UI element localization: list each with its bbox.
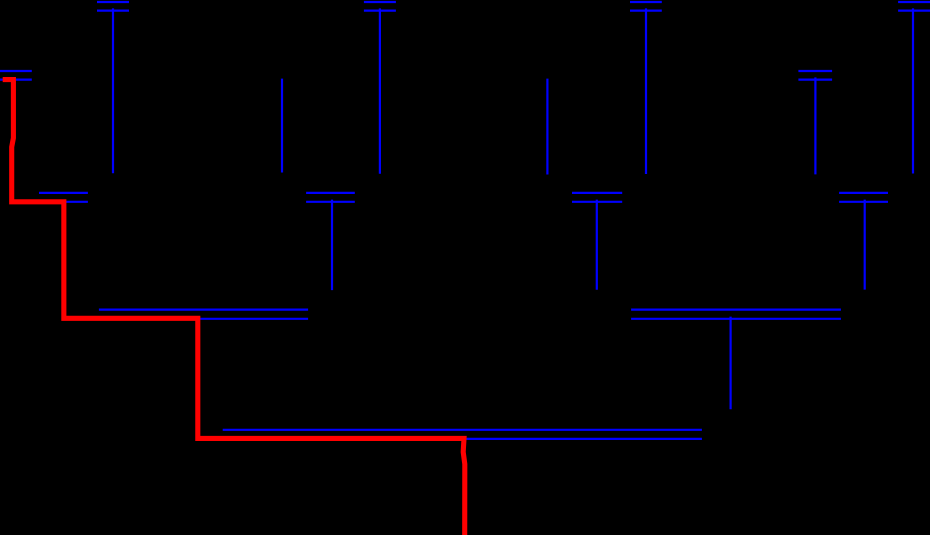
- node S stem: [596, 200, 598, 290]
- node S top bar: [572, 192, 622, 194]
- node S bottom bar: [572, 201, 622, 203]
- node T bottom bar: [839, 201, 888, 203]
- node G top bar: [798, 70, 832, 72]
- node R stem (hidden under red path): [197, 317, 199, 410]
- node U stem: [729, 317, 731, 410]
- node T top bar: [839, 192, 888, 194]
- node G bottom bar: [798, 78, 832, 80]
- node Q top bar: [306, 192, 355, 194]
- node Q bottom bar: [306, 201, 355, 203]
- node H bottom bar: [898, 10, 930, 12]
- node B stem (hidden under red path): [11, 77, 13, 182]
- node P top bar: [39, 192, 88, 194]
- node H stem: [912, 8, 914, 173]
- node F bottom bar: [630, 10, 662, 12]
- node R bottom bar: [99, 318, 308, 320]
- root top bar: [223, 429, 702, 431]
- node B top bar: [0, 70, 32, 72]
- root stem (hidden under red path): [463, 437, 465, 531]
- node P stem (hidden under red path): [63, 200, 65, 290]
- node A bottom bar: [97, 10, 129, 12]
- node P bottom bar: [39, 201, 88, 203]
- node U top bar: [631, 309, 841, 311]
- node D bottom bar: [364, 10, 396, 12]
- node D top bar: [364, 1, 396, 3]
- node Q stem: [331, 200, 333, 291]
- node B bottom bar: [0, 78, 32, 80]
- node F top bar: [630, 1, 662, 3]
- node E stem: [546, 79, 548, 175]
- node U bottom bar: [631, 318, 841, 320]
- node R top bar: [99, 309, 308, 311]
- node C stem: [281, 79, 283, 173]
- node A stem: [112, 8, 114, 173]
- node D stem: [379, 8, 381, 173]
- node H top bar: [898, 1, 930, 3]
- red traversal path from node B leaf to root: [3, 80, 465, 535]
- node T stem: [864, 200, 866, 290]
- node G stem: [814, 77, 816, 174]
- root bottom bar: [223, 438, 702, 440]
- node A top bar: [97, 1, 129, 3]
- node F stem: [645, 8, 647, 174]
